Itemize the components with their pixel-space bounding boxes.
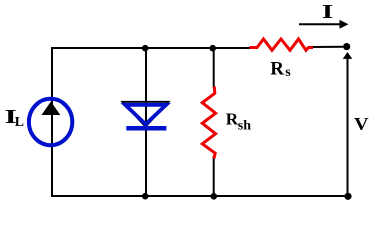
wire: top bus right segment <box>312 46 346 48</box>
diode D1 cathode bar <box>126 126 166 131</box>
current arrow I head <box>340 20 349 29</box>
junction dot bottom right node <box>344 193 351 200</box>
wire: top bus left segment <box>52 48 250 196</box>
svg-text:I: I <box>322 1 334 22</box>
voltage arrow V line <box>347 57 349 196</box>
svg-text:R: R <box>270 59 284 80</box>
diode D1 black outline triangle <box>122 102 168 127</box>
resistor Rs zigzag <box>250 39 314 50</box>
svg-text:sh: sh <box>238 118 251 133</box>
current arrow I line <box>299 23 341 25</box>
svg-text:L: L <box>15 114 24 129</box>
wire: bottom bus <box>51 195 348 197</box>
current source arrow head <box>42 102 61 116</box>
diode D1 blue triangle <box>125 105 166 124</box>
junction dot top Rsh <box>209 45 216 52</box>
wire: Rsh branch vertical top stub <box>213 48 215 88</box>
resistor Rsh zigzag <box>202 87 215 159</box>
junction dot top right node <box>343 43 350 50</box>
junction dot bottom diode <box>142 193 149 200</box>
junction dot top diode <box>142 45 149 52</box>
wire: diode branch vertical <box>145 48 147 196</box>
svg-text:s: s <box>285 65 291 80</box>
junction dot bottom Rsh <box>211 193 218 200</box>
current source U1 circle <box>29 99 72 145</box>
svg-text:V: V <box>354 115 369 134</box>
wire: Rsh branch vertical bottom stub <box>213 156 215 196</box>
voltage arrow V head <box>343 52 353 59</box>
